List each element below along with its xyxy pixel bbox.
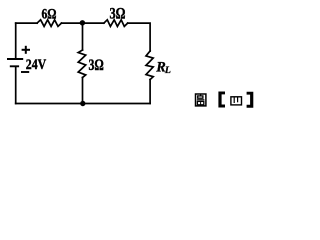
wire RL to bottom-right corner: [149, 80, 151, 104]
resistor 3-ohm middle zigzag: [78, 50, 86, 78]
wire left above battery: [15, 23, 17, 58]
svg-text:24V: 24V: [26, 57, 47, 73]
wire left below battery: [15, 67, 17, 103]
resistor RL zigzag: [146, 51, 153, 80]
wire top-left: from battery top to 6-ohm: [16, 22, 37, 24]
battery 24V short plate (-): [10, 65, 19, 67]
wire node A down to middle 3-ohm: [82, 23, 84, 50]
svg-text:6Ω: 6Ω: [42, 6, 57, 23]
wire middle 3-ohm to bottom node: [82, 78, 84, 104]
svg-text:L: L: [164, 65, 171, 76]
battery 24V long plate (+): [7, 58, 23, 60]
svg-text:3Ω: 3Ω: [110, 6, 126, 23]
caption glyph TU (figure): [196, 94, 206, 106]
svg-text:3Ω: 3Ω: [89, 57, 104, 74]
node A junction dot top: [80, 20, 85, 25]
caption left lenticular bracket: [218, 92, 225, 108]
resistor 3-ohm top zigzag: [104, 20, 128, 27]
wire bottom: [16, 103, 150, 105]
caption glyph SI (four): [231, 97, 242, 105]
wire 3-ohm top to top-right corner, down to RL: [128, 23, 150, 51]
battery minus sign: [21, 71, 29, 73]
node B junction dot bottom: [80, 101, 85, 106]
caption right lenticular bracket: [247, 92, 254, 108]
resistor 6-ohm zigzag: [37, 20, 61, 27]
wire 6-ohm to node A: [62, 22, 104, 24]
battery plus sign: [22, 46, 30, 54]
